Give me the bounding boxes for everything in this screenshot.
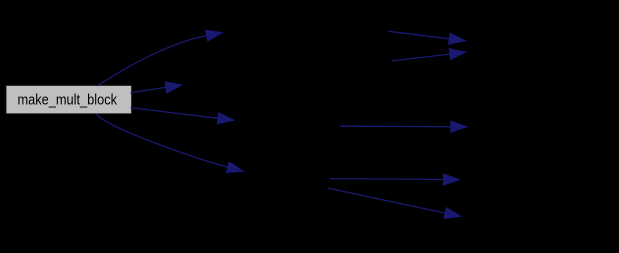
edge make_mult_block -> node3: [131, 82, 182, 93]
edge node4 -> node7: [340, 121, 467, 132]
node make_mult_block (current node, grey): [6, 85, 132, 114]
edge node5 -> node8: [330, 174, 459, 185]
edge make_mult_block -> node4: [131, 108, 234, 124]
edge node5 -> node9: [328, 188, 461, 218]
edge make_mult_block -> node5 (curved down): [96, 114, 243, 173]
edge make_mult_block -> node2 (curved up): [97, 30, 222, 86]
edge node2 -> node6 (upper): [389, 31, 466, 44]
svg-text:make_mult_block: make_mult_block: [18, 92, 118, 109]
edge node3 -> node6 (lower): [392, 49, 466, 61]
